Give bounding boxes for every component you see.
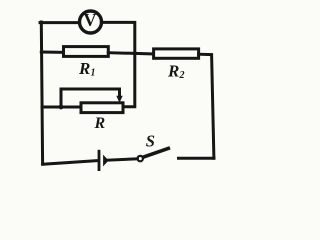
wire: wiper loop xyxy=(61,89,120,107)
resistor R2 xyxy=(154,49,199,58)
wire: bottom left to battery xyxy=(43,161,98,165)
svg-text:R: R xyxy=(94,115,106,132)
svg-text:R: R xyxy=(78,59,90,78)
resistor R1 xyxy=(64,47,109,57)
wire: junction to R2 lead xyxy=(135,52,154,56)
svg-text:V: V xyxy=(84,10,97,30)
wire: R2 right lead and right rail xyxy=(199,54,214,158)
svg-text:R: R xyxy=(167,62,179,81)
wire: R1 left lead xyxy=(41,51,64,54)
rheostat R box xyxy=(81,103,123,113)
svg-text:2: 2 xyxy=(179,70,185,81)
battery B1 short thick plate xyxy=(103,155,109,167)
wire: R1 to junction lead xyxy=(108,51,135,55)
battery B1 long plate xyxy=(98,150,101,171)
svg-text:S: S xyxy=(146,132,155,151)
wire: battery to switch pivot xyxy=(107,159,138,160)
wire: top lead to voltmeter xyxy=(40,21,79,24)
wire: voltmeter right lead xyxy=(104,22,135,106)
voltmeter U1 circle xyxy=(80,11,102,33)
junction node on rheostat wire xyxy=(59,105,64,110)
switch S pivot xyxy=(138,156,143,161)
wire: switch right lead xyxy=(179,157,214,160)
junction node at voltmeter leg and R1-R2 wire xyxy=(133,51,137,55)
svg-text:1: 1 xyxy=(91,68,96,79)
wiper arrowhead xyxy=(116,96,122,103)
switch S lever xyxy=(143,148,170,158)
wire: rheostat left lead xyxy=(42,106,82,109)
wire: left rail xyxy=(41,22,42,164)
